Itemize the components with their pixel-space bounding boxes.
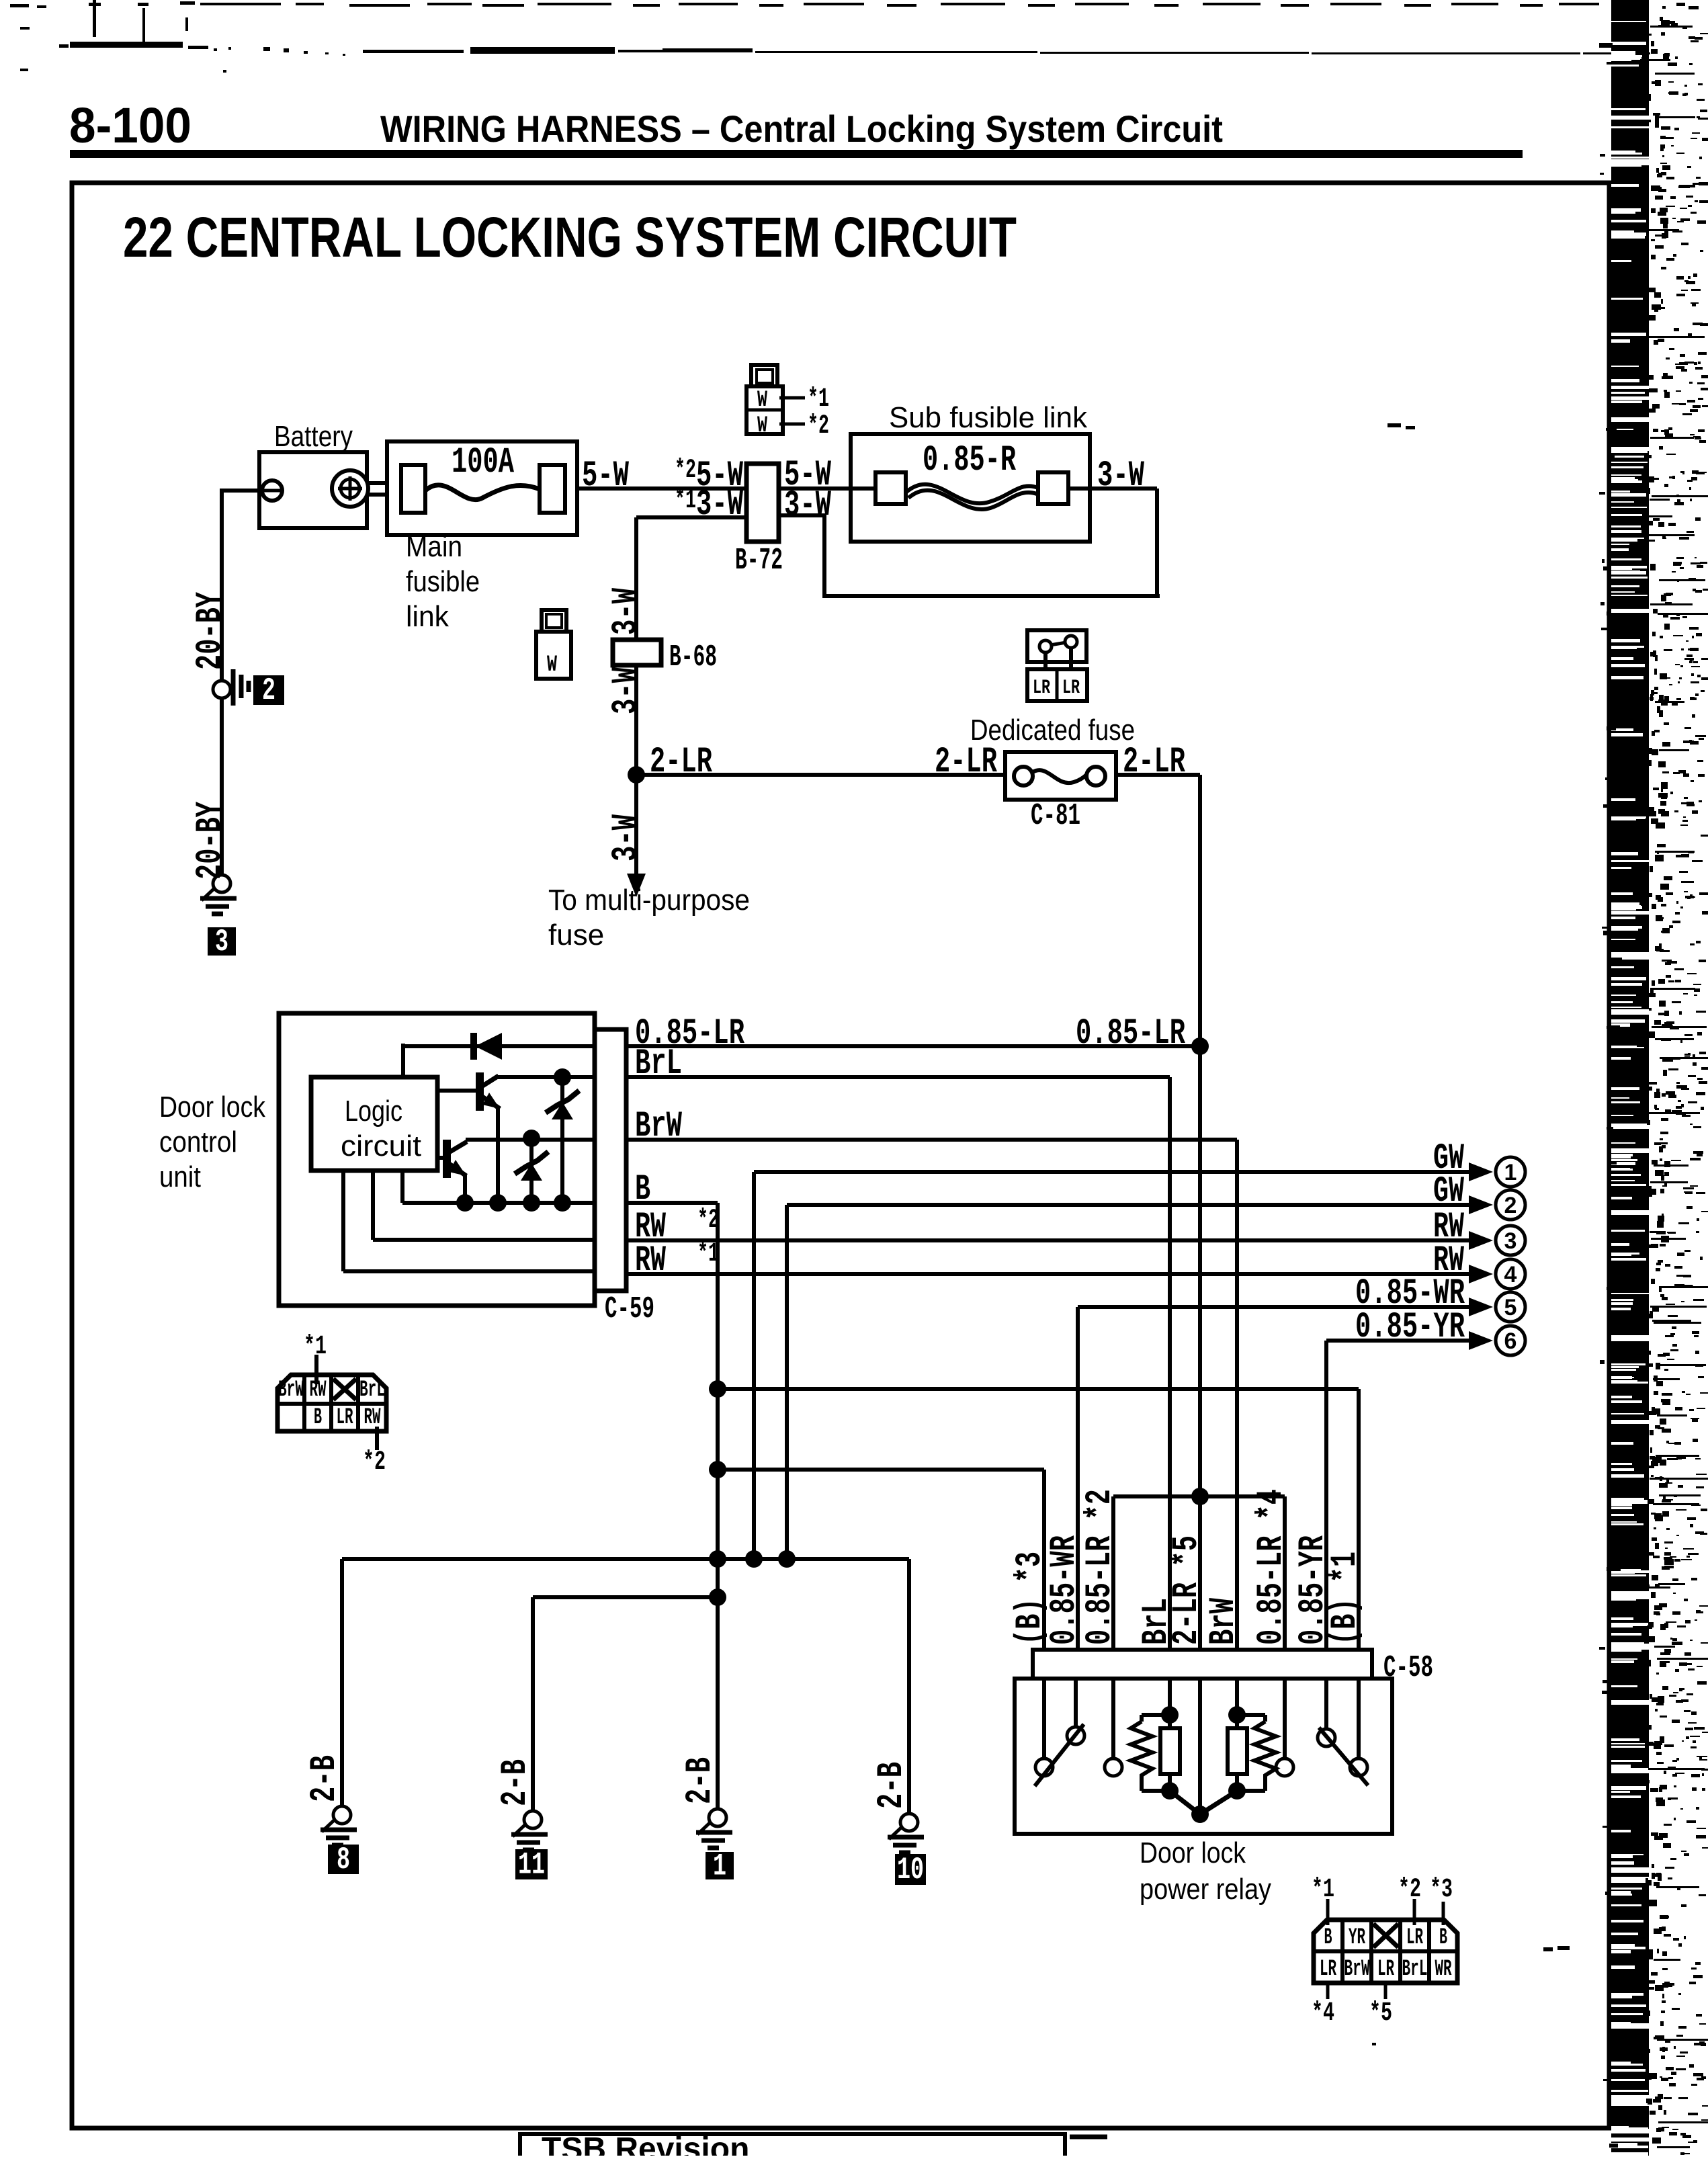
svg-text:*2: *2	[1398, 1875, 1421, 1905]
svg-text:B-68: B-68	[669, 640, 717, 675]
svg-text:GW: GW	[1433, 1171, 1464, 1212]
svg-text:LR: LR	[1377, 1957, 1394, 1982]
svg-text:0.85-LR: 0.85-LR	[1076, 1013, 1185, 1054]
svg-text:BrL: BrL	[1402, 1957, 1428, 1982]
svg-text:WIRING HARNESS – Central Locki: WIRING HARNESS – Central Locking System …	[380, 108, 1223, 150]
svg-text:Main: Main	[406, 530, 462, 563]
svg-text:2-LR: 2-LR	[1123, 742, 1185, 783]
svg-text:LR: LR	[337, 1405, 353, 1431]
svg-text:11: 11	[518, 1848, 545, 1883]
svg-text:2-LR: 2-LR	[650, 742, 712, 783]
svg-text:1: 1	[1504, 1160, 1517, 1185]
svg-text:6: 6	[1504, 1328, 1517, 1354]
svg-text:*2: *2	[675, 456, 696, 486]
svg-text:BrW: BrW	[635, 1106, 682, 1147]
svg-text:To multi-purpose: To multi-purpose	[548, 884, 750, 917]
svg-text:BrL: BrL	[359, 1378, 385, 1403]
svg-text:*4: *4	[1312, 1998, 1334, 2029]
svg-text:100A: 100A	[452, 442, 514, 483]
svg-text:Sub fusible link: Sub fusible link	[889, 401, 1088, 434]
svg-text:2-B: 2-B	[304, 1755, 345, 1802]
svg-text:C-58: C-58	[1383, 1651, 1433, 1685]
svg-text:LR: LR	[1062, 677, 1080, 700]
svg-text:2-B: 2-B	[871, 1762, 912, 1809]
svg-text:5-W: 5-W	[582, 456, 629, 497]
svg-text:*1: *1	[1312, 1875, 1334, 1905]
svg-text:22 CENTRAL LOCKING SYSTEM CIRC: 22 CENTRAL LOCKING SYSTEM CIRCUIT	[123, 206, 1017, 269]
svg-text:RW: RW	[635, 1240, 666, 1281]
svg-text:0.85-WR: 0.85-WR	[1044, 1535, 1085, 1645]
svg-text:control: control	[159, 1126, 237, 1158]
svg-text:link: link	[406, 600, 450, 633]
svg-text:B: B	[1324, 1925, 1332, 1951]
svg-text:B: B	[314, 1405, 322, 1431]
svg-text:fuse: fuse	[548, 919, 604, 951]
svg-text:LR: LR	[1033, 677, 1050, 700]
svg-text:Door lock: Door lock	[1140, 1836, 1246, 1869]
svg-text:4: 4	[1504, 1262, 1517, 1287]
svg-text:BrL: BrL	[635, 1044, 682, 1085]
svg-text:8-100: 8-100	[69, 97, 191, 153]
svg-text:*1: *1	[808, 384, 829, 415]
svg-text:0.85-R: 0.85-R	[923, 440, 1016, 481]
svg-text:BrW: BrW	[1344, 1957, 1370, 1982]
svg-text:power relay: power relay	[1140, 1873, 1271, 1906]
svg-text:2-B: 2-B	[680, 1757, 721, 1804]
svg-text:20-BY: 20-BY	[190, 802, 231, 880]
svg-text:TSB Revision: TSB Revision	[542, 2131, 749, 2156]
svg-text:8: 8	[337, 1843, 350, 1877]
svg-text:*1: *1	[675, 486, 696, 516]
svg-text:2-LR: 2-LR	[935, 742, 997, 783]
svg-text:20-BY: 20-BY	[190, 592, 231, 670]
svg-text:3-W: 3-W	[696, 484, 743, 525]
svg-text:1: 1	[713, 1849, 726, 1884]
svg-text:B-72: B-72	[735, 544, 783, 578]
svg-text:3-W: 3-W	[606, 588, 647, 635]
svg-text:2: 2	[1504, 1193, 1517, 1218]
svg-text:3-W: 3-W	[606, 814, 647, 861]
svg-text:Battery: Battery	[274, 420, 353, 453]
svg-text:5: 5	[1504, 1295, 1517, 1320]
svg-text:0.85-YR: 0.85-YR	[1355, 1307, 1465, 1348]
svg-text:C-81: C-81	[1031, 799, 1080, 833]
svg-text:3-W: 3-W	[784, 485, 831, 526]
svg-text:2: 2	[262, 673, 275, 708]
svg-text:W: W	[547, 652, 557, 678]
svg-text:0.85-LR *2: 0.85-LR *2	[1080, 1489, 1121, 1645]
svg-text:LR: LR	[1406, 1925, 1423, 1951]
svg-text:*3: *3	[1430, 1875, 1453, 1905]
svg-text:10: 10	[897, 1853, 924, 1888]
svg-text:B: B	[635, 1169, 650, 1210]
svg-text:LR: LR	[1320, 1957, 1336, 1982]
svg-text:BrW: BrW	[1203, 1598, 1244, 1645]
svg-text:*1: *1	[697, 1239, 719, 1269]
svg-text:fusible: fusible	[406, 565, 480, 598]
svg-text:3: 3	[1504, 1228, 1517, 1254]
svg-text:2-B: 2-B	[495, 1759, 536, 1806]
svg-text:*2: *2	[363, 1447, 386, 1478]
svg-text:unit: unit	[159, 1160, 201, 1193]
svg-text:(B) *1: (B) *1	[1325, 1552, 1366, 1645]
svg-text:*5: *5	[1369, 1998, 1392, 2029]
svg-text:Logic: Logic	[345, 1095, 402, 1128]
svg-text:W: W	[757, 388, 767, 413]
svg-text:3: 3	[215, 925, 228, 960]
svg-text:Door lock: Door lock	[159, 1091, 266, 1124]
svg-text:0.85-LR *4: 0.85-LR *4	[1251, 1489, 1292, 1645]
svg-text:*2: *2	[697, 1205, 719, 1236]
svg-text:BrW: BrW	[278, 1378, 304, 1403]
svg-text:circuit: circuit	[341, 1130, 421, 1162]
svg-text:B: B	[1439, 1925, 1447, 1951]
svg-text:W: W	[757, 413, 767, 439]
svg-text:3-W: 3-W	[1097, 456, 1144, 497]
svg-text:*2: *2	[808, 411, 829, 441]
svg-text:3-W: 3-W	[606, 667, 647, 714]
svg-text:C-59: C-59	[605, 1292, 654, 1326]
svg-text:*1: *1	[304, 1332, 327, 1362]
svg-text:YR: YR	[1349, 1925, 1365, 1951]
svg-text:2-LR *5: 2-LR *5	[1166, 1535, 1207, 1645]
svg-text:WR: WR	[1435, 1957, 1452, 1982]
